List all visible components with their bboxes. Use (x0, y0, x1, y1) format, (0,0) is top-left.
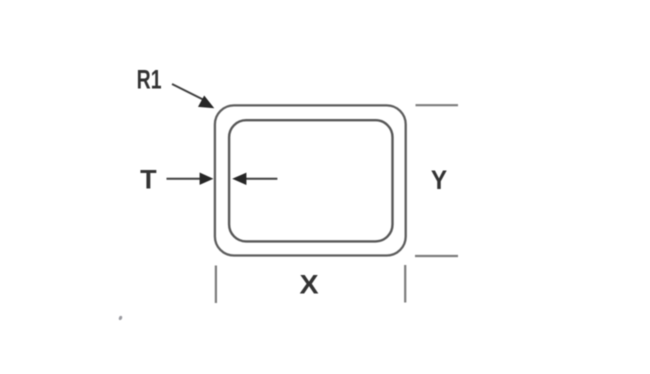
svg-text:T: T (140, 165, 157, 195)
arrowhead R1 (198, 96, 214, 109)
tick X right (404, 265, 406, 303)
dimension arrow T (outer, pointing right) (167, 178, 201, 180)
svg-text:Y: Y (431, 166, 447, 195)
tube outer wall (215, 105, 406, 255)
svg-text:X: X (300, 269, 320, 299)
svg-text:R1: R1 (137, 64, 162, 94)
tick Y bottom (415, 255, 458, 257)
leader line R1 (172, 84, 203, 100)
dimension arrow T (inner, pointing left) (246, 178, 277, 180)
tick X left (215, 266, 217, 304)
speck artifact (118, 315, 123, 320)
tube inner wall (229, 120, 392, 241)
tick Y top (416, 104, 459, 106)
